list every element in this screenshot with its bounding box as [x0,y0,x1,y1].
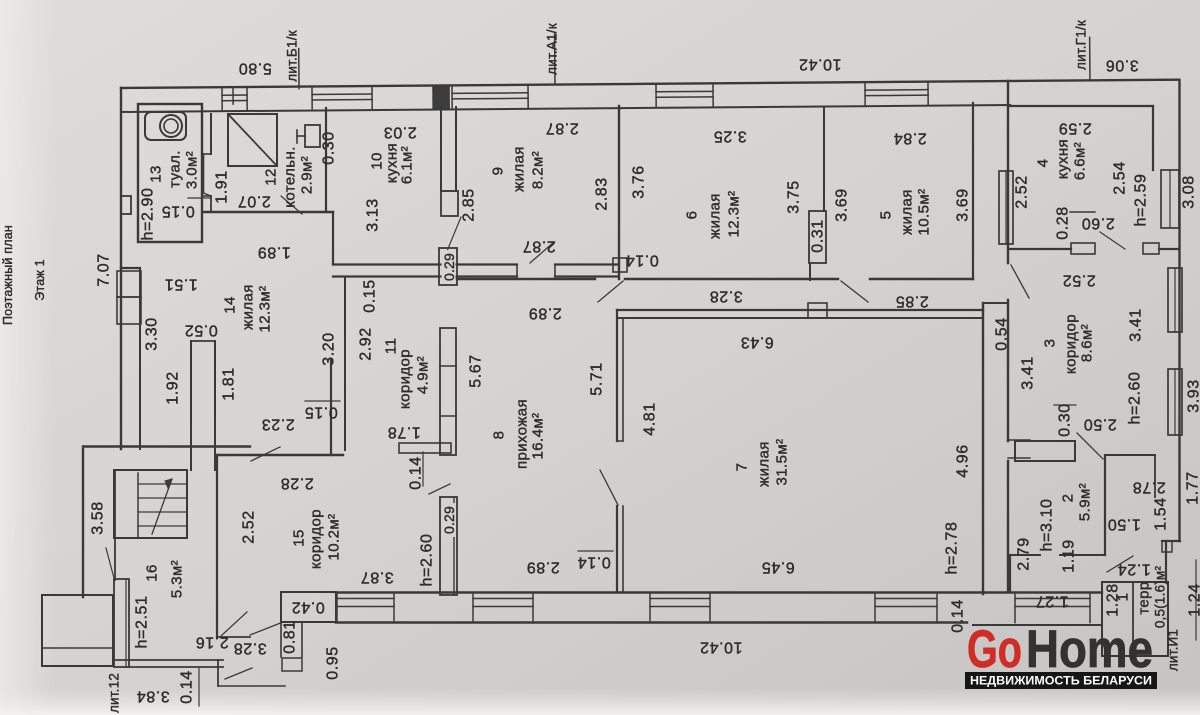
svg-text:6.45: 6.45 [761,559,795,576]
wire kitchen4 top wall [1010,105,1153,107]
backing 029b [442,503,456,537]
wire jamb top [441,190,456,192]
wire closet column a [190,341,192,470]
svg-text:10.42: 10.42 [699,639,742,656]
wire rooms bottom band b [625,278,838,280]
window B2 b [473,606,533,608]
wire step right wall [1162,540,1180,542]
svg-text:лит.Г1/к: лит.Г1/к [1074,20,1089,70]
wire room14 left inner wall [139,268,141,449]
wire hall top band lower L [457,275,517,277]
wire left outer wall upper [120,88,122,268]
svg-text:Поэтажный план: Поэтажный план [1,225,15,325]
door swing bottom b [250,622,283,635]
svg-text:2.87: 2.87 [522,238,556,255]
svg-text:0.15: 0.15 [362,279,379,313]
svg-text:2.03: 2.03 [383,124,417,141]
wire boiler right wall [325,108,327,212]
svg-text:3.75: 3.75 [786,180,803,214]
wire room6-room5 wall lower [809,263,811,280]
svg-text:7: 7 [734,463,751,472]
window B4 a [875,598,937,600]
svg-text:1.77: 1.77 [1185,471,1200,505]
svg-text:7.07: 7.07 [96,253,113,287]
window B5 a [1015,598,1090,600]
svg-text:3.41: 3.41 [1128,308,1145,342]
svg-text:3.76: 3.76 [631,165,648,199]
svg-text:8.6м²: 8.6м² [1079,324,1096,362]
svg-text:2.83: 2.83 [594,177,611,211]
svg-text:3.87: 3.87 [360,569,394,586]
jamb room9 bottom [613,258,627,272]
svg-text:3.06: 3.06 [1105,57,1139,74]
column tick a [440,365,456,367]
sink basin [145,112,186,140]
wire left outer wall mid [120,268,122,449]
window W3 [452,86,528,109]
wire right outer wall upper [1007,81,1009,263]
svg-text:2.52: 2.52 [1062,272,1096,289]
svg-text:лит.12: лит.12 [107,673,122,713]
wire room7 left wall lower b [622,506,624,592]
svg-text:2.79: 2.79 [1016,537,1033,571]
svg-text:3.84: 3.84 [136,688,170,705]
wire slot jog a [204,153,212,155]
wire room2 right wall [1104,455,1106,555]
wire bottom wall lower right [973,624,1102,626]
door swing corridor3 [1011,265,1029,298]
wire right wall lower [1165,541,1167,582]
pier solid [433,85,449,109]
jamb kitchen4 door a [1071,243,1095,254]
wire left outer wall lower [82,449,84,597]
svg-text:2.78: 2.78 [1132,479,1166,496]
door swing room14 [251,447,280,461]
wire annex right outer wall [1178,80,1180,541]
svg-text:6.1м²: 6.1м² [399,146,416,184]
tick 014c [578,550,613,552]
window annex right upper [1161,170,1179,228]
wire kitchen-room9 wall b [455,107,457,191]
svg-text:4: 4 [1035,159,1052,168]
svg-text:0.15: 0.15 [304,404,338,421]
window left wall lower [117,297,141,324]
wire room7 top wall b [617,317,983,319]
svg-text:3: 3 [1042,339,1059,348]
wire room6-room5 wall upper [823,108,825,211]
svg-text:6.43: 6.43 [740,334,774,351]
window right wall [999,171,1013,244]
boiler stove diagonal [228,114,277,166]
wire room7 top wall a [617,309,983,311]
svg-text:жилая: жилая [240,284,257,330]
wall band room2 top [1015,441,1075,461]
window annex right mid [1168,268,1182,332]
top outer wall band [121,28,1180,112]
block bottom [282,658,302,671]
window B1 cap r [393,593,395,623]
svg-text:0,5(1.6)м²: 0,5(1.6)м² [1153,566,1168,629]
wire column inner line [453,497,455,595]
svg-text:0.14: 0.14 [408,456,425,490]
window W1 [222,88,247,110]
wire right outer wall lower [1007,461,1009,592]
wire bottom step wall [218,685,285,687]
svg-text:2.52: 2.52 [241,510,258,544]
svg-text:0.29: 0.29 [441,253,457,281]
room 13 walls [138,104,202,242]
svg-text:3.28: 3.28 [233,640,267,657]
svg-text:2.85: 2.85 [461,188,478,222]
tick 0.15 [188,197,210,199]
svg-text:жилая: жилая [756,441,773,487]
appliance tee v [296,130,298,143]
tick 014b [422,452,424,486]
svg-text:0.15: 0.15 [161,203,195,220]
wire corridor15 top wall [217,454,343,456]
svg-text:3.08: 3.08 [1181,175,1198,209]
svg-text:h=3.10: h=3.10 [1039,499,1056,552]
wire corridor11 left wall [344,277,346,450]
jamb door 9 [516,265,518,277]
wire right outer wall mid [1007,300,1009,441]
wall column 0.29 upper [439,248,457,285]
window B3 cap r [709,593,711,623]
wire room5 right wall [972,103,974,279]
svg-text:15: 15 [291,529,308,547]
svg-text:лит.Б1/к: лит.Б1/к [285,30,300,81]
svg-text:1.24: 1.24 [1187,583,1200,617]
wire bottom wall upper [336,591,1102,593]
wire slot jog d [210,196,212,211]
svg-text:2: 2 [1060,494,1077,503]
svg-text:2.85: 2.85 [895,293,929,310]
window B5 b [1015,606,1090,608]
tick lit G1/k [1089,37,1091,79]
svg-text:h=2.60: h=2.60 [1127,372,1144,425]
svg-text:2.84: 2.84 [893,130,927,147]
svg-text:НЕДВИЖИМОСТЬ БЕЛАРУСИ: НЕДВИЖИМОСТЬ БЕЛАРУСИ [970,674,1152,688]
wire bottom wall left b [129,666,223,668]
door swing vestibule [1107,556,1133,572]
tick door room2 [1008,439,1030,441]
svg-text:6: 6 [684,211,701,220]
door swing room6 [598,281,623,302]
svg-text:12.3м²: 12.3м² [726,191,743,238]
svg-text:16: 16 [144,564,161,582]
svg-text:3.41: 3.41 [1020,356,1037,390]
wire room2 bottom b [1060,554,1105,556]
window W4 [656,84,713,106]
porch column inner [125,579,127,667]
svg-text:коридор: коридор [397,349,414,409]
svg-text:6.6м²: 6.6м² [1072,142,1089,180]
wire wall stub down [1154,455,1156,497]
svg-text:h=2.90: h=2.90 [140,188,157,241]
wire slot jog b [203,154,205,193]
wire kitchen-room9 wall a [440,107,442,191]
window mid2 [1174,268,1176,332]
window B1 a [337,598,394,600]
jamb block kitchen door [441,191,458,216]
wire band left upper [333,263,457,265]
svg-text:терр: терр [1136,581,1153,614]
leader 3.58 [106,548,114,578]
jamb kitchen4 door b [1143,243,1159,254]
svg-text:2.59: 2.59 [1058,120,1092,137]
svg-text:h=2.60: h=2.60 [419,534,436,587]
svg-text:2.28: 2.28 [280,475,314,492]
svg-text:жилая: жилая [511,146,528,192]
boiler stove [228,114,277,166]
GoHome logo [965,620,1157,689]
stair arrow head [165,479,172,488]
svg-text:1.27: 1.27 [1035,593,1069,610]
svg-text:h=2.78: h=2.78 [944,522,961,575]
wire rooms bottom band c [870,278,973,280]
svg-text:Go: Go [967,620,1022,679]
wire step down [217,660,219,686]
wire kitchen4 bottom a [1010,248,1071,250]
stair arrow shaft [152,479,172,534]
svg-text:2.52: 2.52 [1014,175,1031,209]
svg-text:Этаж 1: Этаж 1 [33,259,47,301]
svg-text:31.5м²: 31.5м² [774,439,791,486]
wire wall right of room2 door [1105,454,1155,456]
svg-text:5.80: 5.80 [238,60,272,77]
svg-text:0.54: 0.54 [994,317,1011,351]
window annex right lower [1168,369,1182,435]
porch column [114,579,129,667]
tick lit B1/k [298,49,300,89]
svg-text:8.2м²: 8.2м² [530,151,547,189]
window B3 cap l [649,593,651,623]
jamb [617,440,623,442]
svg-text:3.30: 3.30 [144,317,161,351]
svg-text:0.95: 0.95 [325,646,342,680]
svg-text:5.67: 5.67 [468,354,485,388]
window B5 cap l [1014,593,1016,623]
wire corridor15 right wall [330,360,332,455]
wall column 0.29 mid [440,328,456,455]
svg-text:5.3м²: 5.3м² [169,560,186,598]
svg-text:3.69: 3.69 [834,188,851,222]
svg-text:коридор: коридор [308,509,325,569]
wire boiler bottom wall [203,211,333,213]
svg-text:16.4м²: 16.4м² [530,413,547,460]
svg-text:2.89: 2.89 [528,305,562,322]
stair tread 3 [138,511,187,513]
door swing room9 [530,242,554,263]
door swing room5 [841,281,868,302]
jamb step [1162,541,1172,552]
svg-text:0.42: 0.42 [291,599,325,616]
wire 0.54 strip top [983,302,1008,304]
svg-text:лит.А1/к: лит.А1/к [545,23,560,75]
column tick b [440,415,456,417]
window B4 cap l [874,593,876,623]
svg-text:1.92: 1.92 [165,371,182,405]
tick 030b [1054,404,1076,406]
svg-text:0.30: 0.30 [1057,403,1074,437]
wire rooms bottom band a [457,278,595,280]
wire step column b [301,622,303,657]
wire room7 left wall lower [616,506,618,592]
box 0.42 [281,592,336,622]
window B2 a [473,598,533,600]
logo black bar [965,672,1157,689]
svg-text:2.89: 2.89 [526,559,560,576]
svg-text:1.19: 1.19 [1061,539,1078,573]
wire hall top band upper R [555,263,617,265]
window B1 b [337,606,394,608]
backing 029a [442,250,456,283]
svg-text:котельн.: котельн. [282,146,299,208]
wire wall y637 [217,636,250,638]
svg-text:кухня: кухня [1055,139,1072,179]
svg-text:h=2.59: h=2.59 [1133,174,1150,227]
window mid [1169,170,1171,228]
svg-text:8: 8 [491,431,508,440]
stair tread 4 [138,525,187,527]
wire bottom wall lower [336,621,967,623]
svg-text:3.13: 3.13 [365,198,382,232]
wire stairwell left wall [114,470,116,580]
svg-text:2.23: 2.23 [261,416,295,433]
window B4 cap r [936,593,938,623]
window W2 [312,87,372,109]
svg-text:h=2.51: h=2.51 [134,596,151,649]
window left wall upper [117,271,141,297]
door stub corridor11 [399,443,451,453]
svg-text:2.92: 2.92 [358,327,375,361]
svg-text:1.78: 1.78 [387,424,421,441]
svg-text:3.0м²: 3.0м² [184,151,201,189]
svg-text:0.14: 0.14 [179,670,196,704]
door swing room7 [600,470,618,505]
svg-text:4.9м²: 4.9м² [415,356,432,394]
wire step 0.15 [202,195,211,197]
svg-text:3.69: 3.69 [955,188,972,222]
svg-text:13: 13 [148,165,165,183]
appliance tee h [297,135,305,137]
window right mid [1005,171,1007,244]
dim line 0.14 bottom [198,668,200,706]
svg-text:5.9м²: 5.9м² [1077,483,1094,521]
svg-text:1.50: 1.50 [1107,516,1141,533]
svg-text:прихожая: прихожая [514,399,531,469]
tick door room2 b [1008,457,1030,459]
svg-text:2.16: 2.16 [195,634,229,651]
svg-text:2.9м²: 2.9м² [299,156,316,194]
svg-text:2.54: 2.54 [1112,161,1129,195]
wire closet top [191,340,215,342]
window B1 cap l [336,593,338,623]
svg-text:жилая: жилая [899,189,916,235]
svg-text:1: 1 [1115,593,1132,602]
svg-text:3.93: 3.93 [1186,379,1200,413]
wire step at y268 [121,267,140,269]
svg-text:туал.: туал. [167,150,184,188]
stairs box [114,470,187,538]
svg-text:2.50: 2.50 [1083,416,1117,433]
svg-text:1.81: 1.81 [221,367,238,401]
svg-text:лит.И1: лит.И1 [1166,629,1181,671]
wire hall top band upper L [457,263,517,265]
svg-text:0.31: 0.31 [810,219,827,253]
sink bowl outer [160,115,182,137]
svg-text:1.89: 1.89 [257,244,291,261]
svg-text:жилая: жилая [707,193,724,239]
wire room7 left wall upper [616,310,618,441]
window B2 cap l [472,593,474,623]
window B3 b [650,606,710,608]
wire kitchen4 right wall [1152,106,1154,170]
window B5 cap r [1089,593,1091,623]
door swing corridor11 [429,484,450,494]
wire terrace divider [1132,582,1134,656]
svg-text:10.2м²: 10.2м² [326,514,343,561]
svg-text:3.58: 3.58 [90,501,107,535]
porch [42,595,113,666]
wire room16 right wall [216,455,218,637]
wire closet column b [214,341,216,470]
chimney notch [121,196,131,214]
wire porch inner line [42,647,113,649]
svg-text:3.20: 3.20 [321,332,338,366]
svg-text:коридор: коридор [1063,314,1080,374]
sink bowl inner [164,119,178,133]
wire room2 bottom a [1010,554,1040,556]
wire room14 bottom wall [83,445,250,447]
door swing bottom a [225,668,252,679]
leader 2.60 [1100,232,1125,249]
wire kitchen4 bottom b [1159,248,1179,250]
wire inner top wall [121,105,1010,112]
svg-text:0.14: 0.14 [625,252,659,269]
svg-text:0.30: 0.30 [321,131,338,165]
tick 0.28 [1070,211,1095,213]
wire room7 right wall [982,303,984,594]
svg-text:4.81: 4.81 [642,402,659,436]
svg-text:12: 12 [263,168,280,186]
wire room7 left wall inner [622,318,624,441]
svg-text:2.87: 2.87 [545,120,579,137]
leader 2.85 [447,217,461,251]
tick 0.15 room14 [305,400,340,402]
window B2 cap r [532,593,534,623]
window W1 divider [232,88,234,104]
notch room7 top [808,303,827,318]
svg-text:5: 5 [878,211,895,220]
svg-text:5.71: 5.71 [589,362,606,396]
wire vestibule left wall [1009,555,1011,592]
svg-text:1.91: 1.91 [214,170,231,204]
stair left rail [137,473,139,538]
wall column 0.29 lower [440,497,457,595]
wire bottom wall left a [114,659,223,661]
leader 2.9m2 [281,196,302,214]
wire hall top band lower R [555,275,617,277]
svg-text:2.60: 2.60 [1081,215,1115,232]
svg-text:0.52: 0.52 [184,322,218,339]
jamb door 9b [554,265,556,277]
wire room9-room6 wall [618,106,620,279]
terrace walls [1102,582,1168,656]
wire slot jog c [204,193,212,196]
wire band left lower [333,275,457,277]
dim line 1.24 [1195,560,1197,640]
